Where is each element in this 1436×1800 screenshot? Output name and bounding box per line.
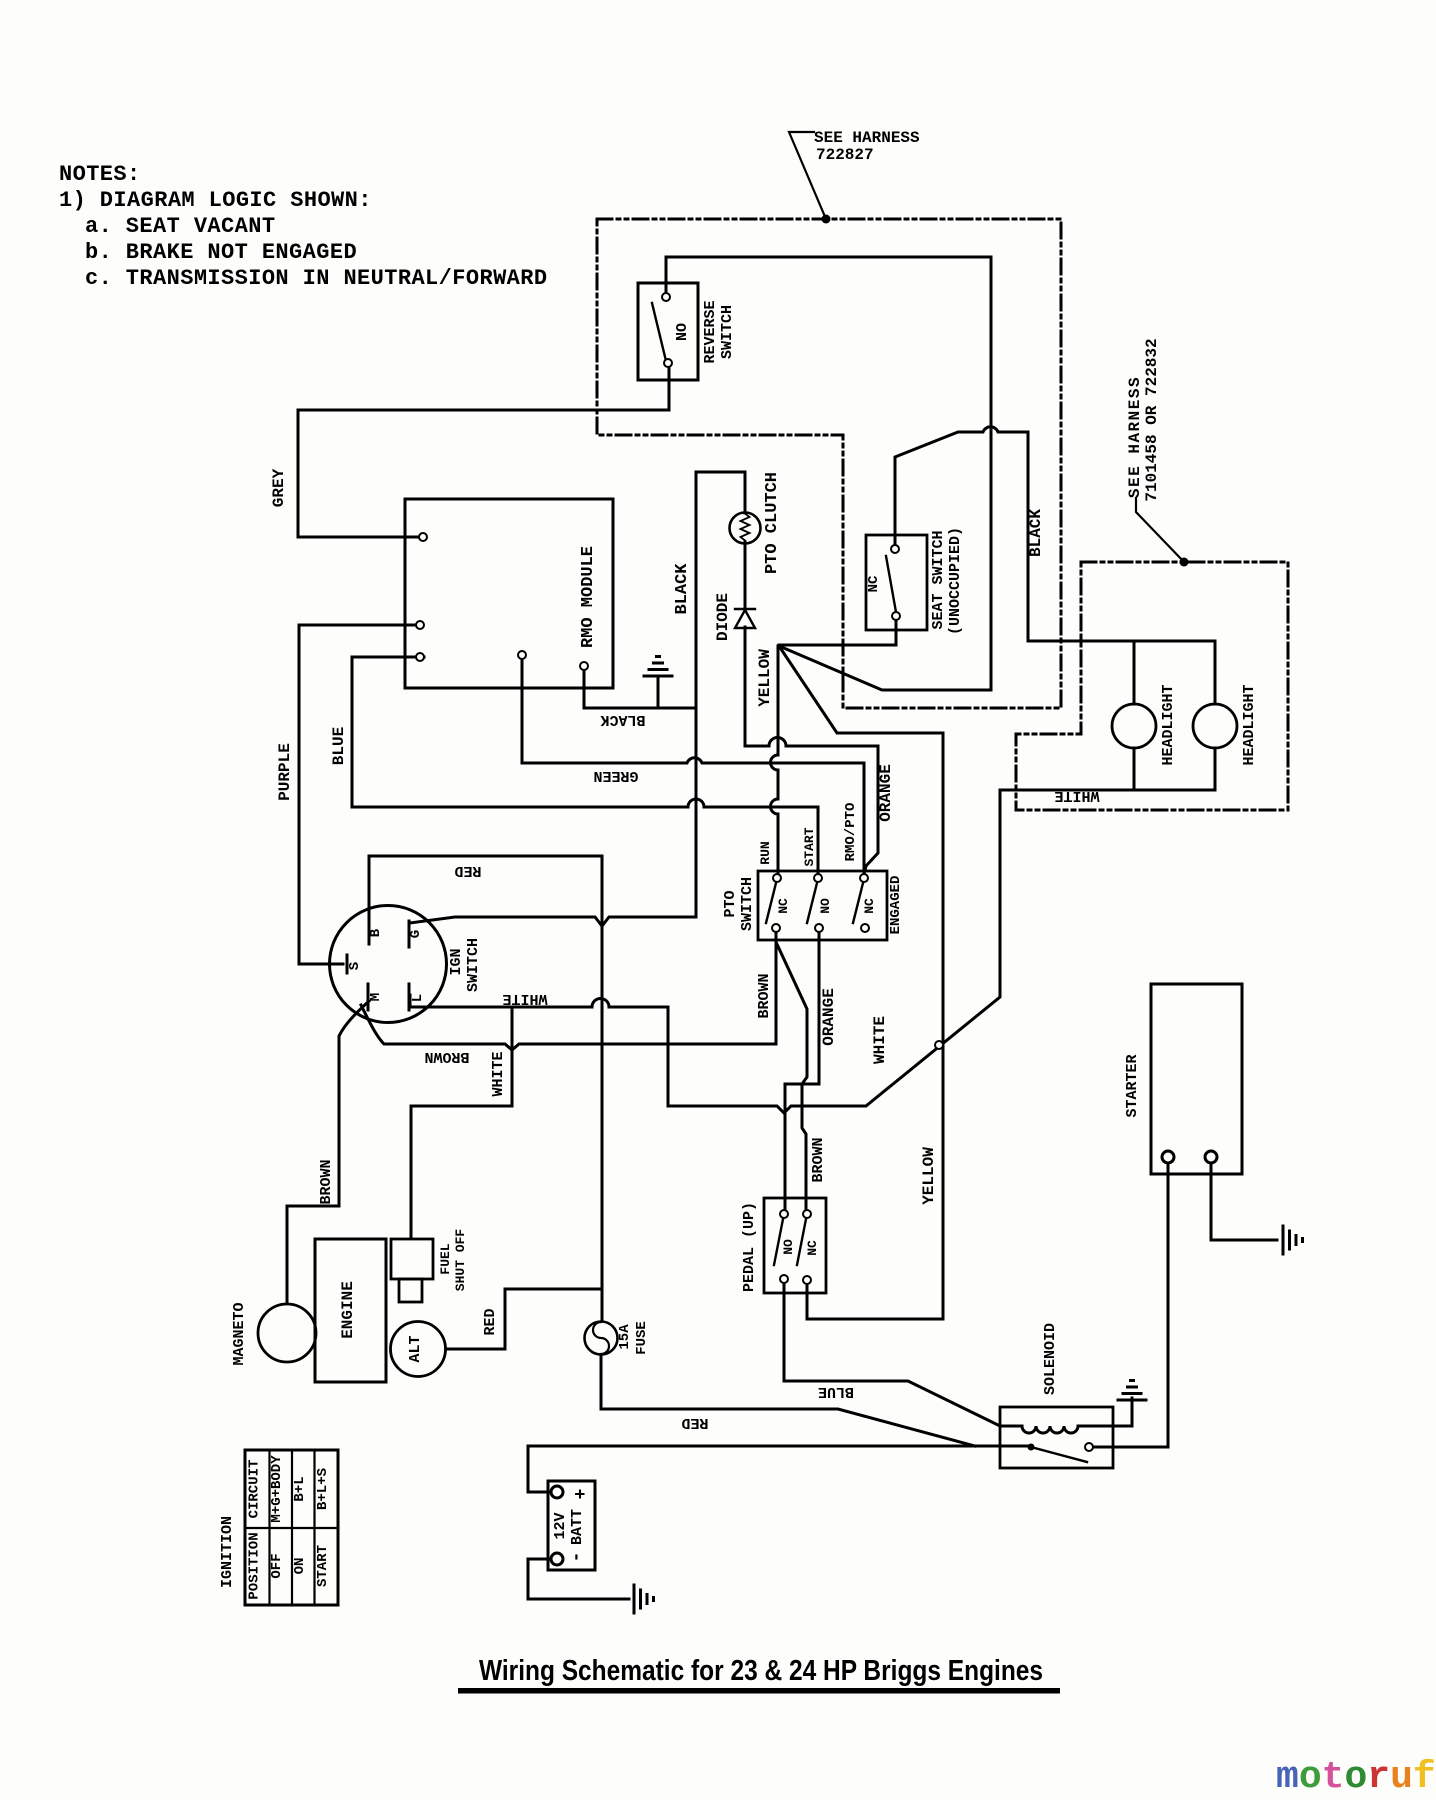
svg-text:RED: RED <box>681 1414 708 1431</box>
PTO switch box <box>758 871 887 940</box>
svg-text:b. BRAKE NOT ENGAGED: b. BRAKE NOT ENGAGED <box>85 240 357 265</box>
svg-text:OFF: OFF <box>269 1553 285 1578</box>
svg-text:DIODE: DIODE <box>714 593 732 641</box>
wire seat switch top to black headlight feed <box>895 427 1215 704</box>
svg-text:FUEL: FUEL <box>438 1243 453 1274</box>
svg-text:SOLENOID: SOLENOID <box>1042 1323 1059 1395</box>
svg-text:NC: NC <box>866 575 882 592</box>
fuse element <box>593 1322 609 1354</box>
svg-text:BLUE: BLUE <box>330 727 348 765</box>
wire headlight1 bottom <box>1133 748 1136 790</box>
wire white ign L to headlights <box>410 790 1215 1113</box>
svg-text:SEAT SWITCH: SEAT SWITCH <box>930 530 947 629</box>
terminal pedal nc bottom <box>803 1276 811 1284</box>
svg-text:motoruf.de: motoruf.de <box>1276 1756 1436 1799</box>
wire blue RMO to PTO START <box>352 657 818 874</box>
svg-text:WHITE: WHITE <box>871 1016 889 1064</box>
ignition table texts <box>247 1455 332 1600</box>
svg-text:CIRCUIT: CIRCUIT <box>247 1460 263 1519</box>
svg-text:PURPLE: PURPLE <box>276 743 294 801</box>
wire blue pedal NO to solenoid coil <box>784 1283 1000 1426</box>
terminal reverse top <box>662 293 670 301</box>
svg-text:M: M <box>368 993 384 1001</box>
starter terminal 1 <box>1162 1151 1174 1163</box>
svg-text:START: START <box>315 1545 331 1587</box>
svg-text:NC: NC <box>805 1240 820 1256</box>
terminal pto nc2 <box>861 924 869 932</box>
wire alt to fuse line <box>446 1289 601 1349</box>
svg-text:SEE HARNESS: SEE HARNESS <box>1126 376 1144 498</box>
engine box <box>315 1239 386 1382</box>
notes text block <box>59 162 547 291</box>
alt circle <box>391 1322 446 1377</box>
terminal rmo 2 <box>416 621 424 629</box>
terminal pedal no bottom <box>780 1275 788 1283</box>
wire red ign B to fuse <box>369 856 602 1321</box>
fuse circle <box>585 1322 618 1355</box>
wire solenoid out to starter <box>1093 1163 1168 1447</box>
blade pto pole3 <box>853 883 863 923</box>
svg-text:7101458 OR 722832: 7101458 OR 722832 <box>1143 338 1161 501</box>
svg-text:START: START <box>802 827 817 866</box>
wire reverse switch top to seat area vertical <box>666 257 991 690</box>
svg-text:Wiring Schematic for 23 & 24 H: Wiring Schematic for 23 & 24 HP Briggs E… <box>479 1654 1043 1686</box>
terminal reverse bottom <box>664 359 672 367</box>
svg-text:G: G <box>408 930 424 938</box>
svg-text:NOTES:: NOTES: <box>59 162 141 187</box>
svg-text:B: B <box>368 928 384 937</box>
wire green: RMO to PTO RMO/PTO terminal <box>522 659 864 874</box>
svg-text:-: - <box>567 1552 587 1563</box>
blade pedal pole1 <box>774 1219 783 1265</box>
blade pto pole1 <box>766 883 776 923</box>
terminal pto rmo <box>860 874 868 882</box>
svg-text:BROWN: BROWN <box>318 1159 335 1204</box>
wire white branch to fuel shutoff <box>411 1007 512 1238</box>
svg-text:RMO/PTO: RMO/PTO <box>843 803 859 862</box>
leader see harness 7101458 <box>1136 498 1184 562</box>
wire starter to ground <box>1211 1163 1277 1240</box>
solenoid box <box>1000 1407 1113 1468</box>
wire seat switch NC bottom to node apex <box>779 620 896 645</box>
wire battery red to solenoid common <box>528 1446 1031 1492</box>
svg-text:WHITE: WHITE <box>1054 787 1099 804</box>
wire yellow apex to pedal NC via yellow vertical <box>779 646 943 1319</box>
wire battery negative to ground <box>528 1559 629 1599</box>
svg-text:S: S <box>347 962 363 970</box>
diode symbol <box>735 609 755 628</box>
wire diode output to RMO/PTO terminal (orange) <box>745 542 878 874</box>
ground solenoid <box>1118 1381 1146 1401</box>
svg-text:BROWN: BROWN <box>424 1048 469 1065</box>
terminal solenoid out <box>1085 1443 1093 1451</box>
starter terminal 2 <box>1205 1151 1217 1163</box>
svg-text:ORANGE: ORANGE <box>877 764 895 822</box>
harness box 722827 dashed <box>597 219 1061 708</box>
svg-text:1) DIAGRAM LOGIC SHOWN:: 1) DIAGRAM LOGIC SHOWN: <box>59 188 372 213</box>
svg-text:FUSE: FUSE <box>634 1321 650 1355</box>
terminal pto nc1 <box>772 924 780 932</box>
fuel shutoff plunger <box>399 1279 422 1302</box>
svg-text:SHUT OFF: SHUT OFF <box>453 1229 468 1292</box>
leader dot 722827 <box>822 215 831 224</box>
pto clutch circle <box>730 513 761 544</box>
ign terminal S <box>346 955 349 973</box>
svg-text:IGNITION: IGNITION <box>219 1516 236 1588</box>
battery box <box>548 1481 595 1570</box>
svg-text:STARTER: STARTER <box>1124 1054 1141 1117</box>
svg-text:IGN: IGN <box>448 948 465 975</box>
blade solenoid <box>1031 1447 1087 1462</box>
headlight1 circle <box>1112 704 1156 748</box>
leader see harness 722827 <box>789 132 826 219</box>
wire grey: RMO pin1 to reverse switch bottom <box>298 368 669 537</box>
wire solenoid coil to ground <box>1000 1398 1132 1433</box>
svg-text:PTO CLUTCH: PTO CLUTCH <box>763 472 782 574</box>
svg-text:RED: RED <box>482 1308 499 1335</box>
terminal pto no <box>815 924 823 932</box>
terminal rmo 3 <box>416 653 424 661</box>
terminal rmo black <box>580 662 588 670</box>
svg-text:YELLOW: YELLOW <box>920 1147 938 1205</box>
harness box headlights dashed <box>1016 562 1288 810</box>
svg-text:(UNOCCUPIED): (UNOCCUPIED) <box>947 527 964 635</box>
svg-text:ENGAGED: ENGAGED <box>888 876 904 935</box>
wire fuse to solenoid <box>601 1355 975 1446</box>
wire black vertical to PTO clutch top <box>696 472 745 917</box>
svg-text:ON: ON <box>292 1558 308 1575</box>
terminal rmo 1 <box>419 533 427 541</box>
svg-text:SWITCH: SWITCH <box>739 877 756 931</box>
ign terminal G <box>408 921 411 947</box>
svg-text:BLACK: BLACK <box>600 711 645 728</box>
wire ign G to black bus with crossover dip <box>410 917 696 926</box>
pto clutch coil zigzag <box>741 514 750 541</box>
svg-text:RED: RED <box>454 862 481 879</box>
wire brown ign M to PTO NC <box>361 932 776 1050</box>
svg-text:POSITION: POSITION <box>247 1532 263 1599</box>
blade reverse switch <box>652 303 666 361</box>
svg-text:L: L <box>410 994 426 1002</box>
ign terminal L <box>408 984 411 1010</box>
ignition table <box>245 1450 338 1605</box>
svg-text:ORANGE: ORANGE <box>820 988 838 1046</box>
wire headlight2 bottom <box>1214 748 1217 790</box>
magneto circle <box>258 1304 316 1362</box>
svg-text:PEDAL (UP): PEDAL (UP) <box>741 1202 758 1292</box>
ground battery <box>634 1585 654 1613</box>
terminal rmo green <box>518 651 526 659</box>
svg-text:BROWN: BROWN <box>756 973 773 1018</box>
svg-text:a. SEAT VACANT: a. SEAT VACANT <box>85 214 275 239</box>
ign terminal M <box>367 984 370 1010</box>
svg-text:B+L+S: B+L+S <box>315 1468 331 1510</box>
svg-text:GREY: GREY <box>270 468 288 507</box>
terminal seat bottom <box>892 612 900 620</box>
terminal seat top <box>891 545 899 553</box>
terminal pto start <box>814 874 822 882</box>
leader dot 7101458 <box>1180 558 1189 567</box>
svg-text:BLACK: BLACK <box>1027 509 1045 557</box>
svg-text:M+G+BODY: M+G+BODY <box>269 1455 285 1523</box>
svg-text:ALT: ALT <box>407 1335 424 1362</box>
terminal pedal nc top <box>803 1210 811 1218</box>
svg-text:+: + <box>572 1489 592 1500</box>
svg-text:NO: NO <box>674 323 691 341</box>
motoruf logo <box>1276 1756 1436 1799</box>
fuel shutoff box <box>391 1239 433 1279</box>
svg-text:WHITE: WHITE <box>502 990 547 1007</box>
svg-text:NO: NO <box>781 1239 796 1255</box>
svg-text:NC: NC <box>862 898 877 914</box>
battery terminal top <box>551 1486 563 1498</box>
svg-text:ENGINE: ENGINE <box>339 1281 357 1339</box>
ign terminal B <box>368 908 371 944</box>
svg-text:12V: 12V <box>552 1512 569 1539</box>
svg-text:NC: NC <box>776 898 791 914</box>
connector white diagonal <box>935 1041 943 1049</box>
solenoid common dot <box>1028 1444 1035 1451</box>
svg-text:SWITCH: SWITCH <box>465 938 482 992</box>
svg-text:RUN: RUN <box>758 841 773 864</box>
svg-text:RMO MODULE: RMO MODULE <box>579 546 598 648</box>
svg-text:SWITCH: SWITCH <box>719 305 736 359</box>
blade pedal pole2 <box>797 1219 806 1265</box>
svg-text:GREEN: GREEN <box>593 767 638 784</box>
svg-text:722827: 722827 <box>816 146 874 164</box>
terminal pto run <box>773 874 781 882</box>
svg-text:NO: NO <box>818 898 833 914</box>
terminal pedal no top <box>780 1210 788 1218</box>
blade pto pole2 <box>807 883 817 923</box>
blade seat switch <box>886 556 896 612</box>
svg-text:YELLOW: YELLOW <box>756 649 774 707</box>
svg-text:B+L: B+L <box>292 1476 308 1501</box>
wire purple RMO to ign S <box>299 625 416 964</box>
ign switch circle <box>330 906 447 1023</box>
wire black RMO ground bus <box>584 670 696 708</box>
svg-text:BLUE: BLUE <box>818 1383 854 1400</box>
svg-text:WHITE: WHITE <box>490 1051 507 1096</box>
svg-text:HEADLIGHT: HEADLIGHT <box>1241 684 1258 765</box>
wire headlight1 feed <box>1133 641 1136 704</box>
ground rmo <box>644 657 672 709</box>
svg-text:15A: 15A <box>617 1324 633 1350</box>
starter box <box>1151 984 1242 1174</box>
wire brown ign M to magneto <box>287 1001 369 1303</box>
svg-text:PTO: PTO <box>722 890 739 917</box>
seat switch box <box>866 535 927 630</box>
ground starter <box>1283 1226 1303 1254</box>
reverse switch box <box>638 283 698 380</box>
svg-text:BATT: BATT <box>569 1509 586 1545</box>
RMO module box <box>405 499 613 688</box>
pedal switch box <box>764 1198 826 1293</box>
headlight2 circle <box>1193 704 1237 748</box>
title underline <box>458 1688 1060 1694</box>
wire run: apex down to PTO RUN terminal with jogs <box>771 646 779 874</box>
svg-text:BLACK: BLACK <box>673 563 692 615</box>
svg-text:MAGNETO: MAGNETO <box>231 1302 248 1365</box>
svg-text:c. TRANSMISSION IN NEUTRAL/FOR: c. TRANSMISSION IN NEUTRAL/FORWARD <box>85 266 547 291</box>
wire orange PTO NO to pedal NO <box>785 932 819 1210</box>
svg-text:REVERSE: REVERSE <box>702 300 719 363</box>
wire PTO NC to pedal NC <box>776 932 807 1210</box>
svg-text:HEADLIGHT: HEADLIGHT <box>1160 684 1177 765</box>
svg-text:BROWN: BROWN <box>810 1137 827 1182</box>
battery terminal bottom <box>551 1553 563 1565</box>
svg-text:SEE HARNESS: SEE HARNESS <box>814 129 920 147</box>
